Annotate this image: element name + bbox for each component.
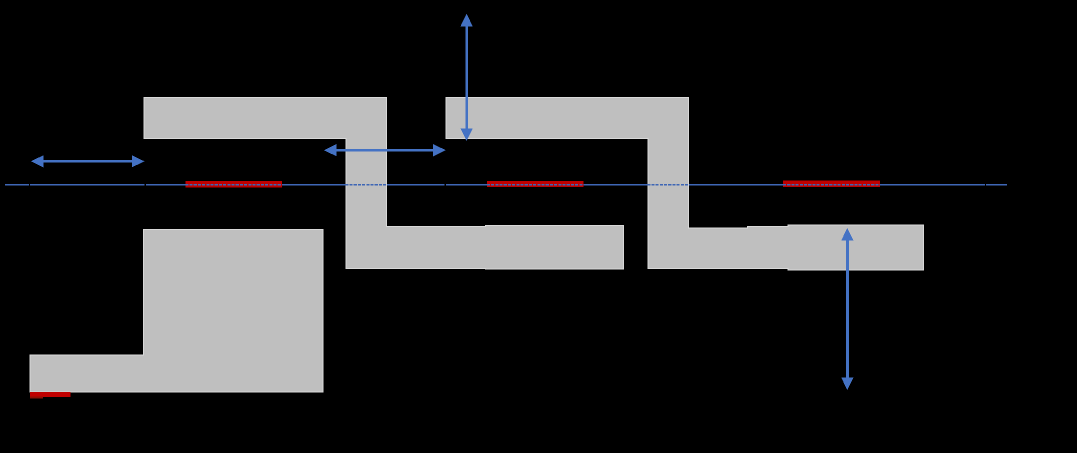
red marker at bottom-left foot xyxy=(30,392,70,397)
gray layer: lower-left block with foot xyxy=(30,230,323,392)
dimension arrow: horizontal double middle (gap between blocks) xyxy=(324,144,446,156)
gray layer: second Z-shaped trace (top bar, via leg, bottom bar) xyxy=(446,98,924,271)
dimension arrow: vertical double at right xyxy=(841,228,853,390)
red overlap marker 1 on axis xyxy=(185,181,281,188)
axis centerline (solid blue, under layers) xyxy=(5,184,1007,186)
dimension arrow: horizontal double at left xyxy=(31,155,144,167)
dark red dash under bottom-left marker xyxy=(30,397,43,399)
dimension arrow: vertical double at top xyxy=(461,14,473,141)
gray layer: first Z-shaped trace (top bar, via leg, bottom bar) xyxy=(144,98,624,270)
red overlap marker 3 on axis xyxy=(783,181,880,188)
red overlap marker 2 on axis xyxy=(487,181,584,187)
axis centerline (dashed blue, over layers) xyxy=(185,184,880,186)
